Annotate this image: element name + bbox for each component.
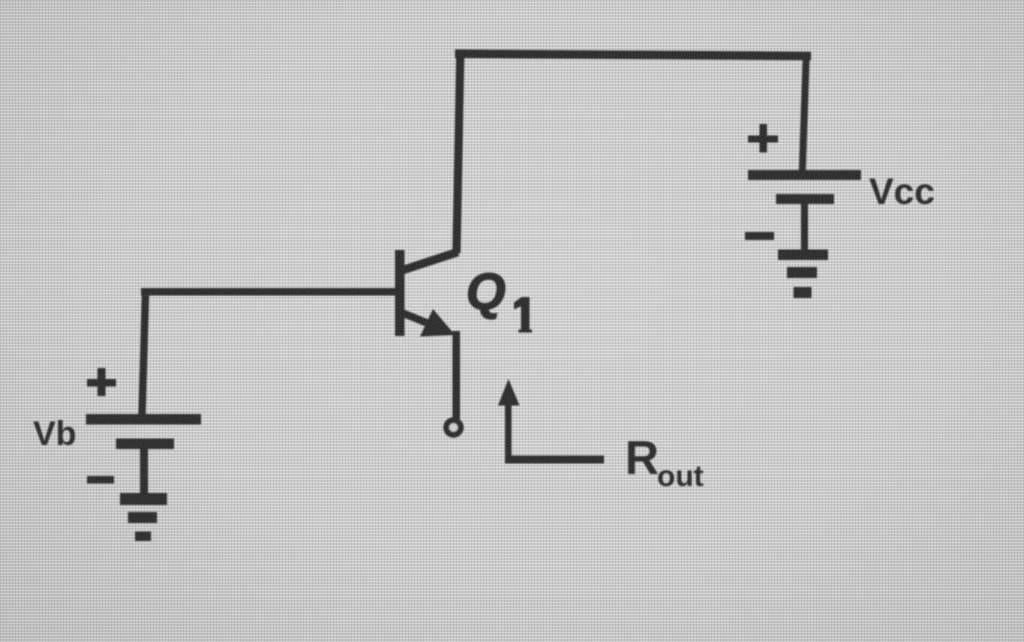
ground below Vcc: bar 2 — [787, 267, 817, 278]
battery Vcc short negative plate — [776, 194, 834, 204]
label Q1 subscript digit 1 — [514, 297, 532, 333]
ground below Vcc: bar 3 — [794, 287, 812, 298]
arrow: Rout arrowhead — [498, 379, 520, 406]
transistor Q1 emitter diagonal — [400, 312, 442, 329]
transistor Q1 collector diagonal — [400, 252, 458, 271]
wire: Vcc battery to ground stem — [801, 204, 808, 250]
minus sign at Vb — [87, 476, 114, 484]
wire: top horizontal from Q1 collector to Vcc positive terminal — [455, 54, 811, 56]
wire: Vb battery top vertical segment — [142, 290, 146, 415]
battery Vcc long positive plate — [748, 170, 861, 180]
ground below Vb: bar 3 — [135, 532, 151, 542]
ground below Vb: bar 2 — [128, 512, 157, 523]
transistor Q1 emitter arrowhead — [420, 309, 455, 337]
plus sign at Vb — [87, 379, 116, 387]
wire: emitter vertical segment down to output node — [453, 331, 461, 419]
plus sign at Vcc — [748, 136, 778, 143]
wire: Vb battery to ground stem — [140, 449, 148, 494]
wire: collector vertical segment — [457, 52, 461, 253]
transistor Q1 base bar — [395, 250, 405, 336]
wire: Vcc battery top vertical segment — [802, 54, 806, 172]
ground below Vcc: bar 1 — [778, 250, 828, 261]
wire: base horizontal from Vb to Q1 base — [141, 288, 399, 296]
ground below Vb: bar 1 — [120, 493, 167, 505]
arrow: Rout measurement arrow vertical shaft — [505, 400, 512, 462]
minus sign at Vcc — [745, 232, 774, 240]
battery Vb short negative plate — [116, 439, 174, 450]
battery Vb long positive plate — [86, 414, 201, 425]
wire: Rout horizontal reference segment — [505, 456, 604, 464]
node: open-circle output terminal — [446, 420, 460, 434]
